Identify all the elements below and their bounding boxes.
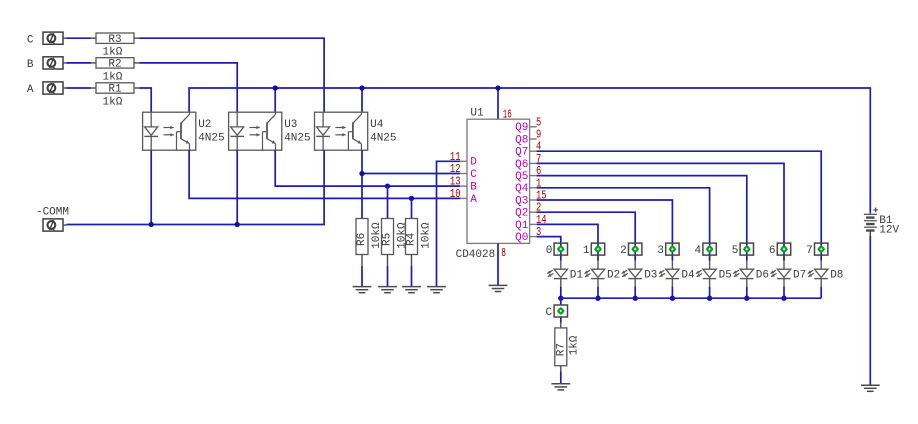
svg-text:R3: R3 (108, 34, 121, 46)
connector 0 (channel terminal) (546, 243, 568, 257)
wire D4 cathode to common rail (671, 287, 673, 299)
LED D7 (770, 261, 806, 287)
optocoupler U4 4N25 (315, 112, 397, 150)
wire U1 Q2 to connector 2 (537, 212, 636, 261)
svg-text:D8: D8 (830, 269, 843, 281)
wire U2 LED cathode down to COMM rail (150, 150, 152, 224)
U1 output pin 1 (Q4) (515, 176, 541, 195)
wire D2 cathode to common rail (597, 287, 599, 299)
svg-text:D5: D5 (719, 269, 732, 281)
svg-text:Q0: Q0 (515, 232, 528, 244)
node junction D1 / LED common rail (558, 296, 563, 301)
LED D5 (696, 261, 732, 287)
ground under R7 (551, 384, 570, 390)
node junction D7 / LED common rail (781, 296, 786, 301)
optocoupler U3 4N25 (229, 112, 311, 150)
resistor R2 1k (91, 58, 140, 84)
node junction pin16 / V+ rail (495, 85, 500, 90)
U1 input pin 13 (B) (450, 175, 477, 194)
node junction D6 / LED common rail (744, 296, 749, 301)
svg-text:10kΩ: 10kΩ (421, 222, 433, 249)
svg-text:D7: D7 (793, 269, 806, 281)
node junction U3 collector / V+ rail (273, 85, 278, 90)
battery B1 12V (864, 208, 900, 237)
svg-text:2: 2 (620, 245, 627, 257)
svg-text:D2: D2 (607, 269, 620, 281)
svg-text:R2: R2 (108, 59, 121, 71)
wire LED common cathode rail (561, 298, 821, 305)
LED D4 (659, 261, 695, 287)
wire U1 Q1 to connector 1 (537, 224, 598, 260)
wire U4 collector to V+ rail (361, 88, 363, 112)
wire U3 collector to V+ rail (274, 88, 276, 112)
U1 input pin 12 (C) (450, 162, 477, 181)
ground for D input (427, 287, 446, 293)
wire C input to R3 (67, 37, 92, 39)
wire R5 bottom to ground (387, 255, 389, 287)
ground under R5 (378, 287, 397, 293)
svg-text:3: 3 (657, 245, 664, 257)
svg-text:4: 4 (694, 245, 701, 257)
ground under R6 (353, 287, 372, 293)
svg-text:A: A (27, 84, 34, 96)
svg-text:U2: U2 (198, 119, 211, 131)
resistor R4 10k pulldown (406, 219, 433, 255)
resistor R1 1k (91, 83, 140, 109)
svg-text:C: C (470, 169, 477, 181)
U1 output pin 7 (Q6) (515, 152, 541, 171)
U1 output pin 6 (Q5) (515, 164, 541, 183)
svg-text:D6: D6 (756, 269, 769, 281)
wire B input to R2 (67, 62, 92, 64)
U1 output pin 3 (Q0) (515, 225, 541, 244)
wire U3 LED cathode down to COMM rail (236, 150, 238, 224)
svg-text:U4: U4 (370, 119, 384, 131)
svg-text:D: D (470, 157, 477, 169)
svg-text:4N25: 4N25 (284, 133, 310, 145)
connector COMM terminal (36, 206, 69, 231)
U1 output pin 2 (Q2) (515, 201, 541, 220)
wire U4 emitter to R6 top (361, 150, 363, 218)
node junction U3 cathode / COMM rail (235, 222, 240, 227)
svg-text:CD4028: CD4028 (456, 249, 496, 261)
U1 output pin 14 (Q1) (515, 213, 547, 232)
U1 input pin 11 (D) (450, 150, 477, 169)
node junction D4 / LED common rail (670, 296, 675, 301)
LED D8 (808, 261, 844, 287)
wire D8 cathode to common rail (820, 287, 822, 299)
wire U1 pin 16 to V+ rail (497, 88, 499, 119)
svg-text:D4: D4 (681, 269, 695, 281)
ground at battery (861, 385, 880, 391)
svg-text:8: 8 (501, 246, 506, 260)
node junction D5 / LED common rail (707, 296, 712, 301)
U1 input pin 10 (A) (450, 187, 477, 206)
wire B net: R2 to U3 LED anode (140, 63, 238, 112)
wire C terminal to R7 (560, 317, 562, 328)
wire U1 pin 11 (D) to ground (437, 161, 461, 286)
wire U1 Q5 to connector 5 (537, 176, 747, 261)
svg-text:1kΩ: 1kΩ (103, 96, 123, 108)
wire U1 Q0 to connector 0 (537, 237, 561, 261)
svg-text:D3: D3 (644, 269, 657, 281)
wire D3 cathode to common rail (634, 287, 636, 299)
connector C (LED common terminal) (545, 305, 567, 319)
svg-text:U1: U1 (470, 107, 484, 119)
wire U1 Q7 to connector 7 (537, 151, 822, 261)
wire U1 Q4 to connector 4 (537, 188, 710, 261)
svg-text:Q7: Q7 (515, 147, 528, 159)
svg-text:Q4: Q4 (515, 183, 529, 195)
pin 8 number label (501, 246, 506, 260)
svg-text:0: 0 (546, 245, 553, 257)
optocoupler U2 4N25 (143, 112, 225, 150)
svg-text:D1: D1 (570, 269, 584, 281)
wire D6 cathode to common rail (746, 287, 748, 299)
wire D5 cathode to common rail (709, 287, 711, 299)
node junction D3 / LED common rail (633, 296, 638, 301)
U1 output pin 5 (Q9) (515, 115, 541, 134)
svg-text:7: 7 (806, 245, 813, 257)
resistor R5 10k pulldown (382, 219, 409, 255)
ground under R4 (402, 287, 421, 293)
pin 8 wire to ground (497, 243, 499, 285)
svg-text:1kΩ: 1kΩ (569, 335, 581, 355)
svg-text:16: 16 (503, 107, 512, 121)
ground at U1 pin 8 (489, 285, 508, 291)
wire A net: R1 to U2 LED anode (140, 88, 152, 112)
svg-text:-COMM: -COMM (36, 206, 69, 218)
U1 output pin 9 (Q8) (515, 128, 541, 147)
connector 6 (channel terminal) (769, 243, 791, 257)
wire R5 top (387, 186, 389, 218)
svg-text:Q6: Q6 (515, 159, 528, 171)
IC U1 CD4028 body (456, 107, 530, 261)
svg-text:A: A (470, 194, 477, 206)
connector 3 (channel terminal) (657, 243, 679, 257)
node junction R5 top / B wire (385, 183, 390, 188)
svg-text:C: C (27, 34, 34, 46)
resistor R3 1k (91, 33, 140, 59)
svg-text:R4: R4 (406, 232, 418, 246)
LED D1 (547, 261, 583, 287)
resistor R7 1k (555, 328, 581, 366)
wire C net: R3 to U4 LED anode (140, 38, 325, 112)
LED D6 (733, 261, 769, 287)
resistor R6 10k pulldown (356, 219, 383, 255)
wire R7 to ground (560, 366, 562, 384)
wire battery negative to ground (869, 236, 871, 385)
pin 16 number label (503, 107, 512, 121)
svg-text:R5: R5 (382, 233, 394, 246)
svg-text:R1: R1 (108, 84, 122, 96)
svg-text:Q8: Q8 (515, 134, 528, 146)
connector 1 (channel terminal) (583, 243, 605, 257)
wire U3 emitter to U1 pin 13 (B) (275, 150, 460, 186)
svg-text:12V: 12V (879, 225, 899, 237)
connector 2 (channel terminal) (620, 243, 642, 257)
svg-text:B: B (470, 182, 477, 194)
connector 5 (channel terminal) (732, 243, 754, 257)
connector 4 (channel terminal) (694, 243, 716, 257)
svg-text:4N25: 4N25 (370, 133, 396, 145)
svg-text:5: 5 (732, 245, 739, 257)
svg-text:C: C (545, 307, 552, 319)
U1 output pin 15 (Q3) (515, 189, 547, 208)
wire U2 emitter to U1 pin 10 (A) (189, 150, 460, 198)
svg-text:Q5: Q5 (515, 171, 528, 183)
wire U1 Q3 to connector 3 (537, 200, 673, 261)
wire COMM rail to opto LED cathodes (67, 150, 325, 224)
wire R6 bottom to ground (361, 255, 363, 287)
svg-text:Q2: Q2 (515, 208, 528, 220)
svg-text:B: B (27, 59, 34, 71)
wire D7 cathode to common rail (783, 287, 785, 299)
connector 7 (channel terminal) (806, 243, 828, 257)
wire R4 bottom to ground (411, 255, 413, 287)
svg-text:6: 6 (769, 245, 776, 257)
svg-text:Q1: Q1 (515, 220, 529, 232)
connector B (input terminal) (27, 57, 67, 71)
U1 output pin 4 (Q7) (515, 140, 541, 159)
svg-text:1kΩ: 1kΩ (103, 47, 123, 59)
node junction D2 / LED common rail (595, 296, 600, 301)
svg-text:R6: R6 (356, 233, 368, 246)
node junction U4 emitter / C wire / R6 (359, 171, 364, 176)
wire R4 top (411, 198, 413, 218)
svg-text:Q9: Q9 (515, 122, 528, 134)
wire V+ rail: U2 collector up and right to battery B1 + (189, 88, 870, 213)
wire D1 cathode to common rail (560, 287, 562, 299)
wire U1 Q6 to connector 6 (537, 163, 784, 260)
svg-text:4N25: 4N25 (198, 133, 224, 145)
node junction R4 top / A wire (409, 196, 414, 201)
svg-text:10: 10 (450, 187, 461, 201)
LED D2 (584, 261, 620, 287)
connector C (input terminal) (27, 32, 67, 46)
node junction U2 cathode / COMM rail (149, 222, 154, 227)
svg-text:1: 1 (583, 245, 590, 257)
LED D3 (622, 261, 658, 287)
svg-text:U3: U3 (284, 119, 297, 131)
svg-text:R7: R7 (556, 343, 568, 356)
connector A (input terminal) (27, 82, 67, 96)
svg-text:Q3: Q3 (515, 195, 528, 207)
node junction U4 collector / V+ rail (359, 85, 364, 90)
svg-text:1kΩ: 1kΩ (103, 71, 123, 83)
wire U4 emitter to U1 pin 12 (C) (362, 173, 460, 175)
wire A input to R1 (67, 87, 92, 89)
